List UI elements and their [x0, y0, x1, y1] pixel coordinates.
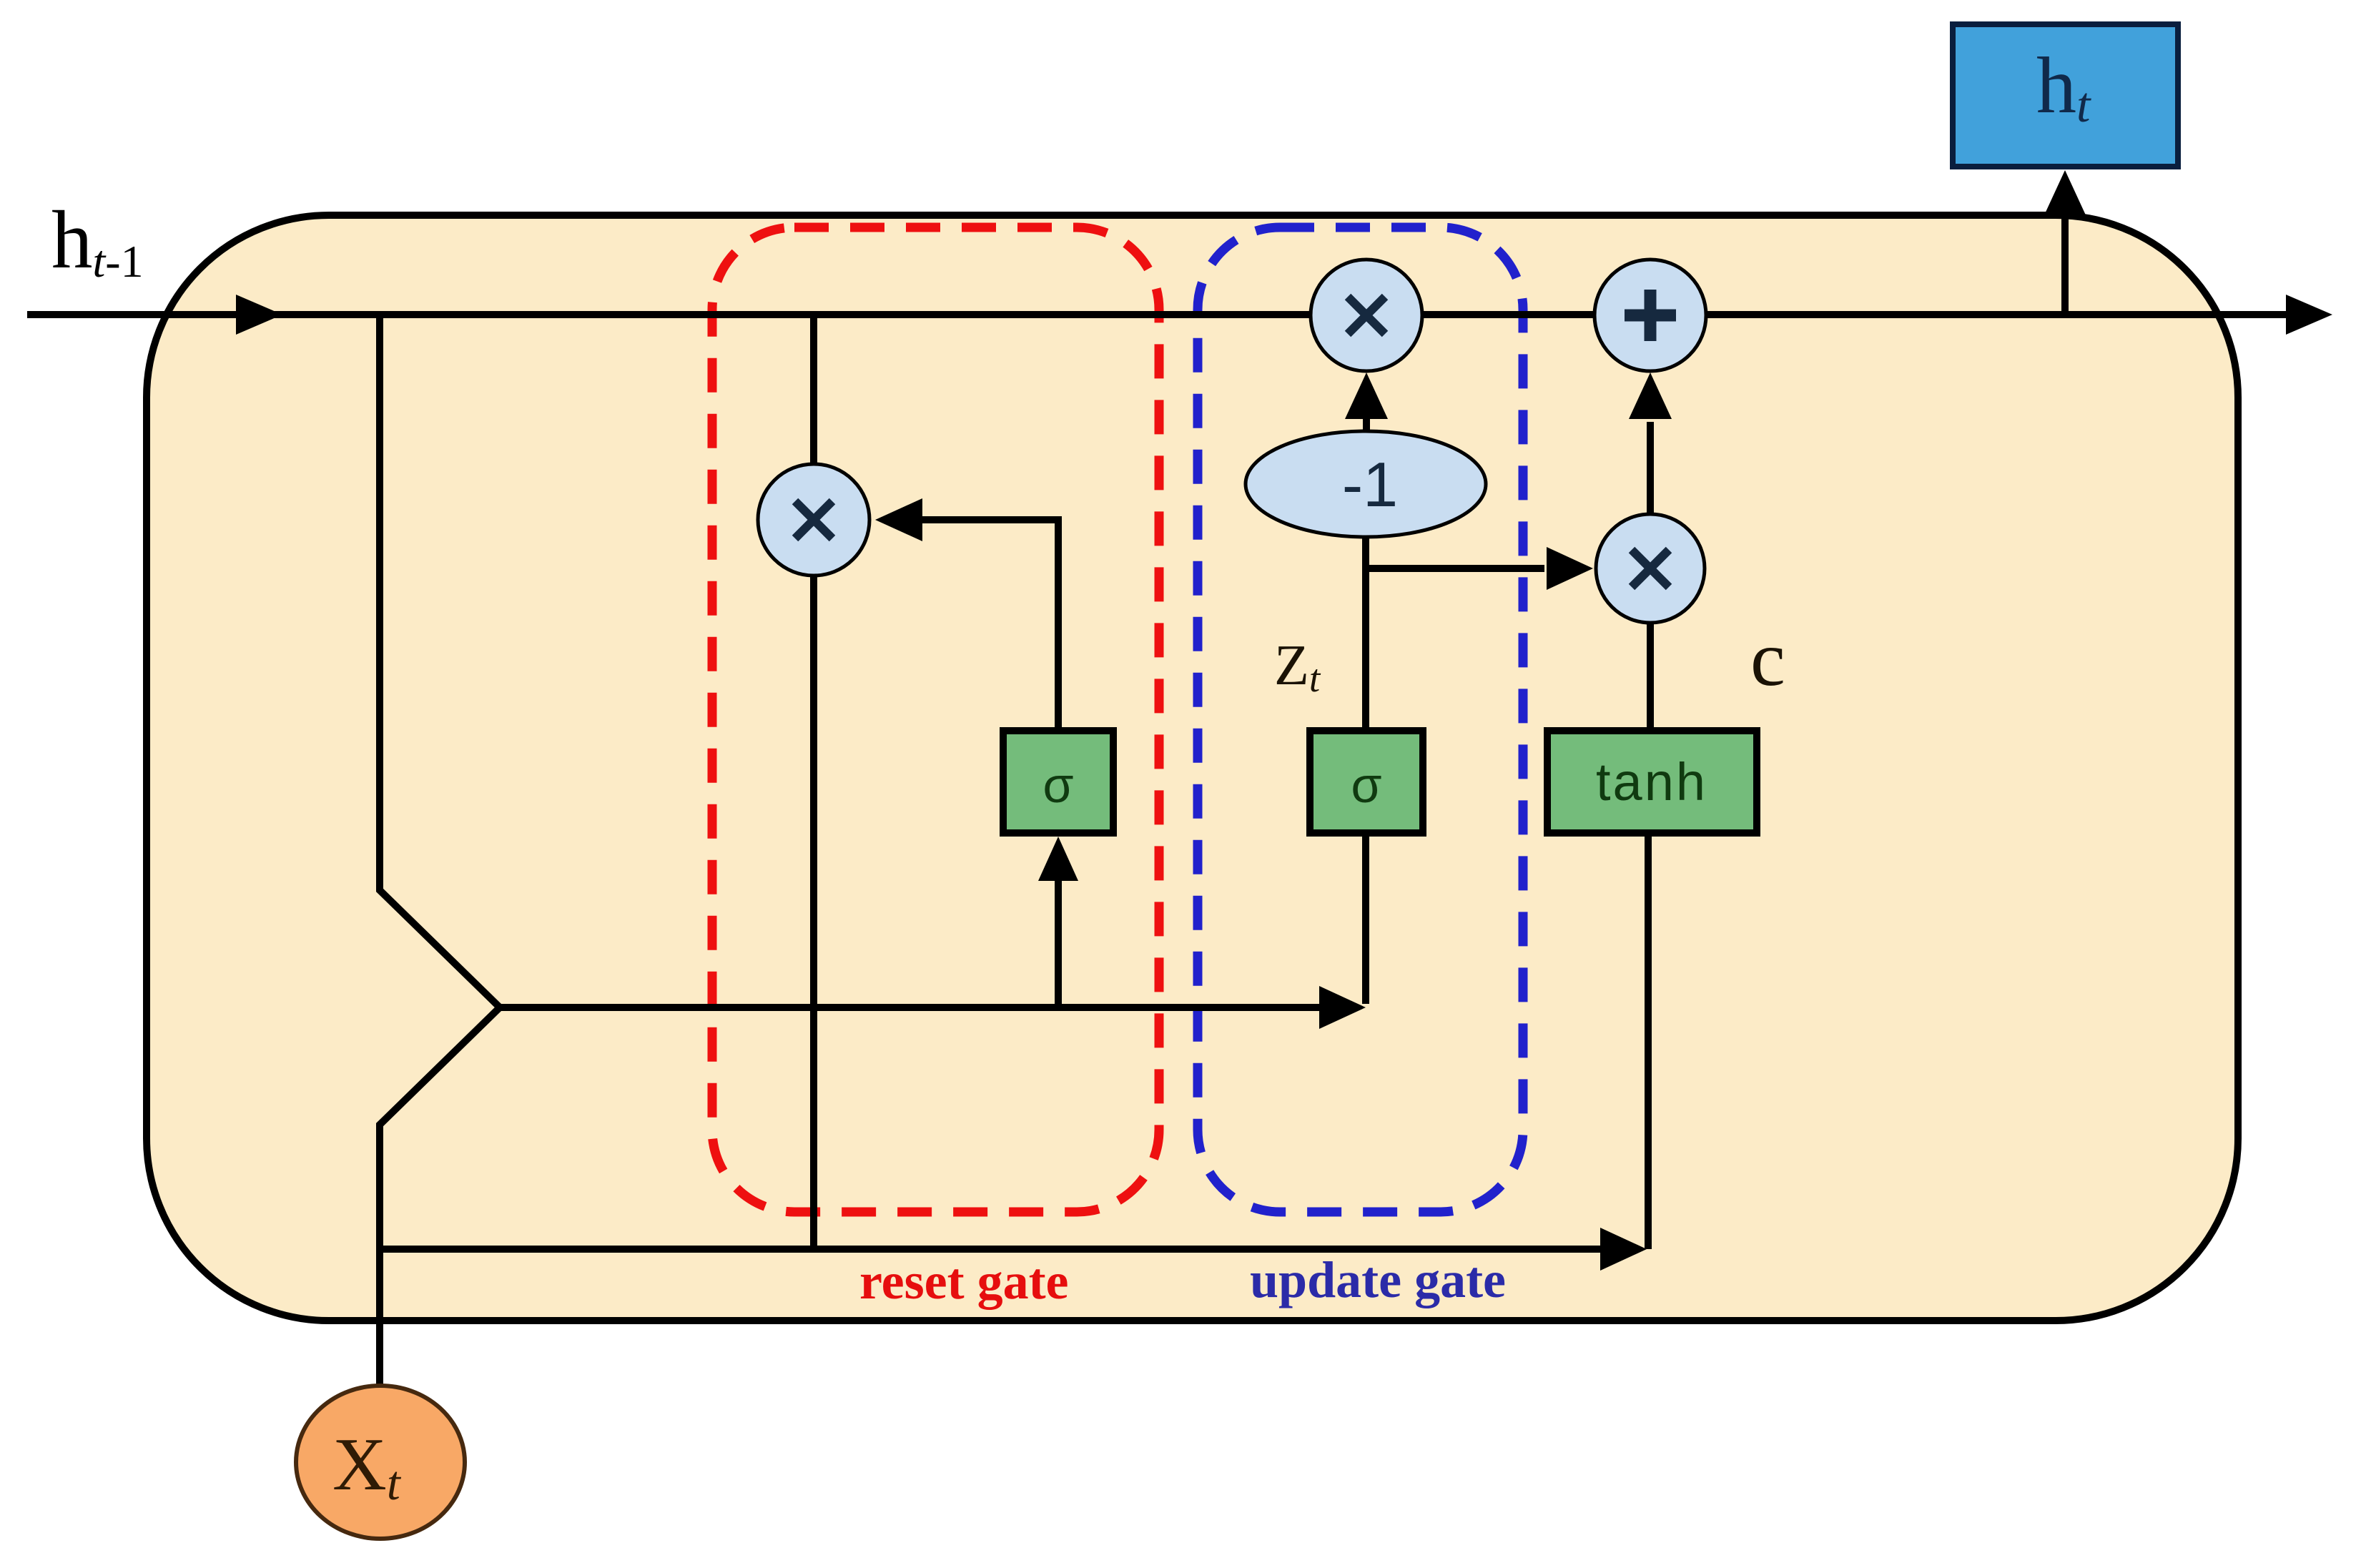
wire: main h horizontal line — [27, 311, 2292, 318]
svg-text:σ: σ — [1351, 757, 1381, 813]
wire: bottom wire from trunk to tanh riser — [380, 1246, 1602, 1253]
wire: branch right into lower multiply — [1366, 565, 1544, 572]
wire: ellipse bottom to update sigma top — [1362, 537, 1369, 731]
GRU cell body (rounded rectangle) — [147, 215, 2238, 1321]
svg-text:reset gate: reset gate — [859, 1253, 1069, 1310]
svg-text:-1: -1 — [1342, 449, 1398, 520]
gate: tanh box — [1547, 731, 1757, 833]
reset gate dashed box — [712, 227, 1159, 1212]
wire arrow: exit arrowhead right — [2286, 295, 2332, 335]
wire arrow: entry arrowhead on h line — [236, 295, 282, 335]
wire: riser from mid line to update sigma — [1362, 833, 1369, 1004]
node: X_t input circle — [296, 1386, 465, 1539]
op: lower multiply circle — [1596, 514, 1705, 623]
op: reset multiply circle — [758, 464, 869, 576]
wire: x_t trunk vertical from h line — [380, 315, 500, 1385]
wire arrow on bottom wire into tanh riser — [1600, 1228, 1647, 1271]
gate: update sigma box — [1310, 731, 1423, 833]
op: minus-one ellipse — [1246, 431, 1486, 537]
op: update multiply circle on h line — [1311, 260, 1422, 371]
update gate dashed box — [1198, 227, 1523, 1212]
svg-text:c: c — [1750, 615, 1785, 702]
wire: lower multiply bottom to tanh top — [1647, 622, 1654, 731]
gate: reset sigma box — [1003, 731, 1113, 833]
svg-text:σ: σ — [1043, 757, 1073, 813]
wire: tanh riser — [1645, 833, 1652, 1249]
op: plus circle on h line — [1594, 260, 1706, 371]
wire: arrow from sigma output into reset multiply — [922, 520, 1058, 731]
wire: h_t output vertical with arrow — [2061, 215, 2069, 315]
svg-text:update gate: update gate — [1250, 1251, 1506, 1308]
svg-text:tanh: tanh — [1596, 752, 1707, 812]
wire: ellipse top arrow into update multiply — [1363, 418, 1370, 431]
node: h_t output box — [1953, 24, 2178, 167]
wire arrow into reset sigma — [1038, 837, 1078, 881]
wire: branch up into reset sigma — [1055, 876, 1062, 1007]
wire: reset multiply vertical (h-line down to bottom wire) — [810, 315, 817, 1249]
wire arrow into update sigma riser — [1319, 986, 1366, 1029]
wire: lower multiply to plus — [1647, 422, 1654, 513]
wire: mid horizontal line to update sigma — [500, 1004, 1321, 1011]
